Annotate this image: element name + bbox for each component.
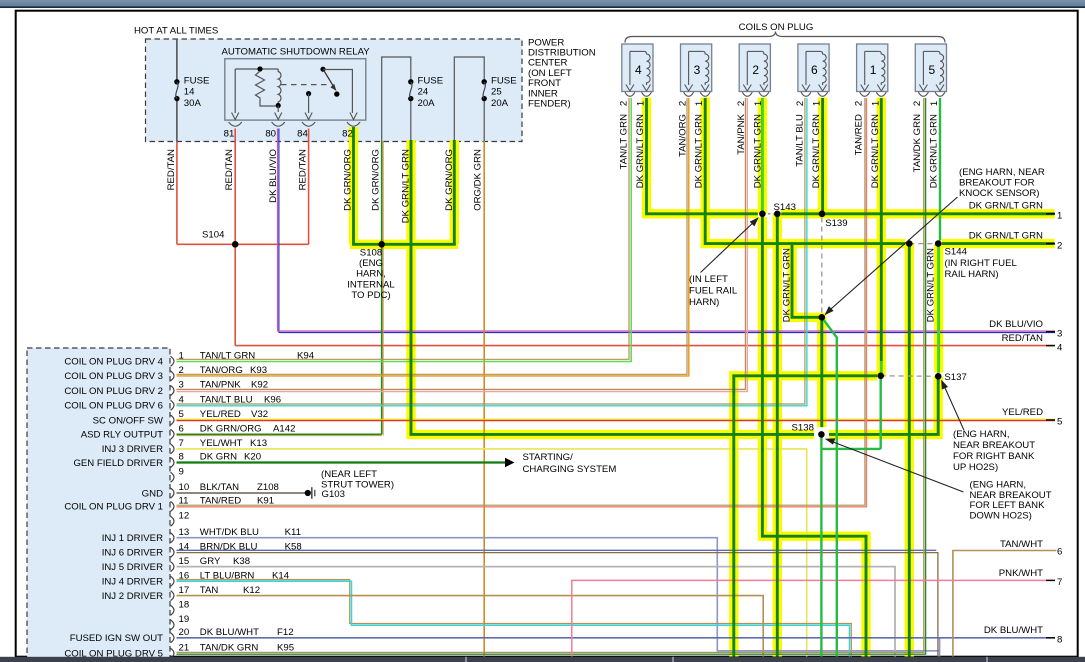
svg-text:KNOCK SENSOR): KNOCK SENSOR) (959, 188, 1040, 199)
svg-text:2: 2 (619, 101, 630, 106)
PCM pin 9 socket arc (171, 472, 175, 482)
arrow starting/charging (505, 458, 515, 468)
wire pin80 DK BLU/VIO (277, 129, 279, 332)
svg-text:K93: K93 (250, 365, 267, 376)
wire fuse14 inside PDC (black) (176, 40, 178, 142)
svg-text:6: 6 (1057, 547, 1062, 558)
ignition coil 6 (798, 44, 829, 92)
leader to S143 (in left fuel rail harn) (701, 220, 757, 273)
dashed S143 link (762, 213, 777, 215)
PCM pin 18 socket arc (171, 605, 175, 615)
svg-text:(ENG HARN,: (ENG HARN, (953, 429, 1010, 440)
wire row8 DK GRN to starting system (177, 461, 506, 463)
svg-text:NEAR BREAKOUT: NEAR BREAKOUT (970, 490, 1052, 501)
svg-text:ORG/DK GRN: ORG/DK GRN (473, 149, 484, 211)
wire row20 DK BLU/WHT line8 (177, 637, 1056, 639)
relay dashed actuator link (281, 84, 329, 86)
svg-text:2: 2 (736, 101, 747, 106)
svg-text:14: 14 (184, 87, 195, 98)
splice S108 (378, 241, 385, 248)
PCM pin 6 socket arc (171, 429, 175, 439)
PCM pin 12 socket arc (171, 516, 175, 526)
wire 909 vertical (908, 246, 911, 657)
relay pin84 stub (306, 91, 311, 96)
ignition coil 3 (681, 44, 712, 92)
svg-text:21: 21 (179, 642, 190, 653)
PCM connector box (27, 348, 170, 659)
svg-text:20: 20 (179, 627, 190, 638)
svg-text:DK BLU/VIO: DK BLU/VIO (268, 149, 279, 203)
splice S143 dots (759, 211, 766, 218)
PCM pin 21 socket arc (171, 648, 175, 658)
svg-text:TAN/DK GRN: TAN/DK GRN (200, 642, 259, 653)
svg-text:S143: S143 (774, 202, 796, 213)
svg-text:24: 24 (418, 87, 429, 98)
wire fuse24 left leg DK GRN/ORG thin (382, 141, 384, 436)
svg-text:TAN/PNK: TAN/PNK (736, 113, 747, 154)
wire fuse25 right leg ORG/DK GRN (483, 141, 485, 657)
wire row17 TAN (177, 596, 764, 657)
PCM pin 10 socket arc (171, 488, 175, 498)
PCM pin 17 socket arc (171, 591, 175, 601)
svg-text:18: 18 (179, 600, 190, 611)
svg-text:5: 5 (928, 63, 935, 77)
svg-text:82: 82 (342, 129, 353, 140)
svg-text:K96: K96 (264, 394, 281, 405)
PCM pin 5 socket arc (171, 415, 175, 425)
wire line4 RED/TAN horizontal (235, 345, 1055, 347)
svg-text:1: 1 (1057, 211, 1062, 222)
wire row6 DK GRN/ORG horizontal (177, 435, 382, 437)
PCM pin 13 socket arc (171, 533, 175, 543)
dashed S139 to knock splice (821, 218, 823, 314)
svg-text:11: 11 (179, 496, 189, 507)
svg-text:GEN FIELD DRIVER: GEN FIELD DRIVER (73, 458, 163, 469)
wire coil6 pin1 (821, 98, 824, 214)
relay switch (320, 67, 325, 72)
svg-text:ASD RLY OUTPUT: ASD RLY OUTPUT (81, 430, 163, 441)
coils on plug bracket (625, 32, 945, 43)
svg-text:1: 1 (179, 350, 184, 361)
wire S104 horizontal (177, 243, 309, 245)
svg-text:COIL ON PLUG DRV 2: COIL ON PLUG DRV 2 (64, 386, 163, 397)
wire fuse14 RED/TAN vertical (176, 142, 178, 245)
svg-text:13: 13 (179, 527, 190, 538)
svg-text:V32: V32 (251, 409, 268, 420)
svg-text:FOR LEFT BANK: FOR LEFT BANK (970, 500, 1046, 511)
wire row2 TAN/ORG pair (177, 98, 688, 374)
relay coil bumps (278, 69, 281, 103)
svg-text:Z108: Z108 (257, 482, 279, 493)
svg-text:19: 19 (179, 614, 190, 625)
svg-text:DK GRN/ORG: DK GRN/ORG (444, 149, 455, 211)
svg-text:INJ 5 DRIVER: INJ 5 DRIVER (102, 562, 163, 573)
power distribution center box (146, 39, 523, 142)
svg-text:S139: S139 (825, 218, 847, 229)
svg-text:1: 1 (636, 101, 647, 106)
wire coil1 pin1 (880, 98, 883, 361)
svg-text:LT BLU/BRN: LT BLU/BRN (200, 570, 255, 581)
splice knock breakout (819, 314, 826, 321)
svg-text:25: 25 (491, 87, 502, 98)
ignition coil 4 (622, 44, 653, 92)
dashed splice to S137 link (881, 375, 939, 378)
svg-text:2: 2 (1057, 240, 1062, 251)
svg-text:K12: K12 (243, 585, 260, 596)
bottom status bar (0, 657, 1085, 662)
svg-text:K91: K91 (257, 496, 274, 507)
svg-text:NEAR BREAKOUT: NEAR BREAKOUT (953, 440, 1035, 451)
svg-text:TAN/RED: TAN/RED (853, 114, 864, 155)
svg-text:14: 14 (179, 542, 190, 553)
svg-text:TAN/RED: TAN/RED (200, 496, 241, 507)
ground G103 (305, 490, 311, 496)
svg-text:K11: K11 (285, 527, 301, 538)
wire coil5 pin1 bright thin (939, 98, 941, 241)
wire knock bright green branch (822, 317, 837, 656)
svg-text:GRY: GRY (200, 556, 221, 567)
svg-text:WHT/DK BLU: WHT/DK BLU (200, 527, 259, 538)
ignition coil 5 (915, 44, 946, 92)
svg-text:S108: S108 (360, 248, 382, 259)
PCM pin 8 socket arc (171, 458, 175, 468)
wire S108 bus (352, 243, 456, 246)
svg-text:DK GRN/LT GRN: DK GRN/LT GRN (929, 114, 940, 188)
svg-text:3: 3 (694, 63, 701, 77)
fuse 25 (481, 84, 488, 97)
svg-text:COIL ON PLUG DRV 6: COIL ON PLUG DRV 6 (64, 401, 163, 412)
svg-text:HOT AT ALL TIMES: HOT AT ALL TIMES (134, 26, 218, 37)
wire 375 bus and 733 vertical (734, 376, 877, 657)
PCM pin 19 socket arc (171, 620, 175, 630)
relay pin connector arcs (229, 122, 242, 126)
svg-text:1: 1 (929, 101, 940, 106)
svg-text:TAN: TAN (200, 585, 219, 596)
svg-text:FUSE: FUSE (184, 75, 210, 86)
svg-text:2: 2 (912, 101, 923, 106)
PCM pin 1 socket arc (171, 356, 175, 366)
svg-text:(NEAR LEFT: (NEAR LEFT (321, 469, 377, 480)
svg-text:PNK/WHT: PNK/WHT (999, 568, 1043, 579)
svg-text:TAN/LT GRN: TAN/LT GRN (619, 114, 630, 170)
wire S138 green branch (821, 379, 880, 657)
splice S137 (935, 373, 942, 380)
wire row15 GRY (177, 567, 896, 657)
splice S104 (232, 241, 239, 248)
ignition coil 2 (739, 44, 770, 92)
svg-text:16: 16 (179, 570, 190, 581)
svg-text:4: 4 (635, 63, 642, 77)
wire row21 TAN/DK GRN pair (177, 98, 924, 652)
PCM pin 11 socket arc (171, 501, 175, 511)
svg-text:TAN/LT GRN: TAN/LT GRN (200, 350, 256, 361)
PCM pin 14 socket arc (171, 547, 175, 557)
svg-text:RED/TAN: RED/TAN (298, 149, 309, 190)
wire knock L to line2 (792, 244, 822, 428)
svg-text:(IN RIGHT FUEL: (IN RIGHT FUEL (945, 258, 1018, 269)
svg-text:DK GRN/LT GRN: DK GRN/LT GRN (811, 114, 822, 188)
wire row16 LT BLU/BRN pair (177, 580, 852, 657)
splice near S137 (877, 373, 884, 380)
svg-text:1: 1 (812, 101, 823, 106)
svg-text:RAIL HARN): RAIL HARN) (945, 269, 999, 280)
svg-text:A142: A142 (273, 424, 295, 435)
svg-text:30A: 30A (184, 98, 202, 109)
svg-text:DK GRN/LT GRN: DK GRN/LT GRN (870, 114, 881, 188)
svg-text:(ENG HARN,: (ENG HARN, (970, 480, 1027, 491)
svg-text:INJ 2 DRIVER: INJ 2 DRIVER (102, 591, 163, 602)
svg-text:DK BLU/WHT: DK BLU/WHT (200, 627, 259, 638)
svg-text:DK GRN/LT GRN: DK GRN/LT GRN (694, 114, 705, 188)
wire line3 DK BLU/VIO horizontal (278, 330, 1056, 332)
svg-text:2: 2 (677, 101, 688, 106)
relay box (225, 59, 366, 120)
svg-text:4: 4 (179, 394, 185, 405)
svg-text:TO PDC): TO PDC) (351, 290, 390, 301)
svg-text:K95: K95 (277, 642, 294, 653)
svg-text:80: 80 (265, 129, 276, 140)
svg-text:UP HO2S): UP HO2S) (953, 462, 998, 473)
svg-text:FUSED IGN SW OUT: FUSED IGN SW OUT (70, 633, 163, 644)
svg-text:TAN/LT BLU: TAN/LT BLU (795, 114, 806, 167)
wire line1 right (781, 212, 1054, 215)
wire coil4 pin1 + line1 left (647, 98, 758, 214)
svg-text:COIL ON PLUG DRV 3: COIL ON PLUG DRV 3 (64, 371, 163, 382)
svg-text:1: 1 (694, 101, 705, 106)
svg-text:RED/TAN: RED/TAN (166, 149, 177, 190)
wire row5 YEL/RED line5 (177, 418, 1056, 420)
svg-text:DK GRN/LT GRN: DK GRN/LT GRN (635, 114, 646, 188)
svg-text:G103: G103 (322, 489, 345, 500)
svg-text:DOWN HO2S): DOWN HO2S) (970, 511, 1032, 522)
wire row14 BRN/DK BLU (177, 549, 937, 551)
wire line6 TAN/WHT (953, 551, 1057, 657)
svg-text:K58: K58 (285, 542, 302, 553)
wire coil2 pin1 bright (761, 98, 764, 214)
leader S138 left bank (828, 440, 964, 492)
svg-text:YEL/WHT: YEL/WHT (200, 438, 243, 449)
svg-text:(IN LEFT: (IN LEFT (689, 274, 728, 285)
svg-text:2: 2 (795, 101, 806, 106)
svg-text:3: 3 (179, 380, 184, 391)
svg-text:3: 3 (1057, 329, 1062, 340)
svg-text:(ENG: (ENG (359, 258, 383, 269)
splice S139 (819, 211, 826, 218)
svg-text:2: 2 (752, 63, 759, 77)
wire line7 PNK/WHT (572, 580, 1055, 656)
svg-text:9: 9 (179, 466, 184, 477)
svg-text:FUSE: FUSE (418, 75, 444, 86)
svg-text:6: 6 (811, 63, 818, 77)
svg-text:STARTING/: STARTING/ (523, 452, 574, 463)
svg-text:COILS ON PLUG: COILS ON PLUG (739, 22, 814, 33)
wire row1 TAN/LT GRN pair (177, 98, 630, 359)
wire row13 WHT/DK BLU (177, 538, 940, 651)
fuse 14 (174, 84, 181, 97)
PCM pin 7 socket arc (171, 444, 175, 454)
wire row3 TAN/PNK pair (177, 98, 746, 389)
svg-text:BREAKOUT FOR: BREAKOUT FOR (959, 177, 1035, 188)
svg-text:HARN): HARN) (689, 297, 719, 308)
svg-text:K92: K92 (251, 380, 268, 391)
svg-text:RED/TAN: RED/TAN (224, 149, 235, 190)
fuse25 loop inside box (454, 57, 484, 141)
wire line2 right (942, 242, 1055, 245)
svg-text:COIL ON PLUG DRV 4: COIL ON PLUG DRV 4 (64, 357, 163, 368)
svg-text:INJ 3 DRIVER: INJ 3 DRIVER (102, 444, 163, 455)
svg-text:TAN/PNK: TAN/PNK (200, 380, 241, 391)
PCM pin 4 socket arc (171, 400, 175, 410)
svg-text:DK GRN/ORG: DK GRN/ORG (371, 149, 382, 211)
fuse 24 (408, 84, 415, 97)
svg-text:CHARGING SYSTEM: CHARGING SYSTEM (523, 464, 617, 475)
svg-text:SC ON/OFF SW: SC ON/OFF SW (93, 415, 164, 426)
relay top wire (235, 68, 278, 70)
svg-text:DK GRN/LT GRN: DK GRN/LT GRN (401, 149, 412, 223)
svg-text:YEL/RED: YEL/RED (1002, 407, 1043, 418)
svg-text:TAN/LT BLU: TAN/LT BLU (200, 394, 253, 405)
fuse24 loop inside box (382, 57, 411, 141)
svg-text:COIL ON PLUG DRV 1: COIL ON PLUG DRV 1 (64, 502, 163, 513)
svg-text:DK GRN/LT GRN: DK GRN/LT GRN (969, 231, 1043, 242)
wire pin84 RED/TAN vertical (308, 129, 310, 245)
svg-text:DK BLU/VIO: DK BLU/VIO (989, 319, 1043, 330)
svg-text:S137: S137 (944, 372, 966, 383)
ignition coil 1 (857, 44, 888, 92)
wire row10 BLK/TAN (177, 492, 306, 494)
dashed S144 link (909, 243, 938, 245)
svg-text:DK GRN/LT GRN: DK GRN/LT GRN (969, 201, 1043, 212)
svg-text:S144: S144 (945, 247, 968, 258)
svg-text:TAN/DK GRN: TAN/DK GRN (912, 114, 923, 173)
wire row4 TAN/LT BLU pair (177, 98, 805, 404)
wire fuse25 left leg (453, 140, 456, 245)
svg-text:10: 10 (179, 482, 190, 493)
PCM pin 2 socket arc (171, 371, 175, 381)
svg-text:8: 8 (1057, 635, 1062, 646)
svg-text:TAN/WHT: TAN/WHT (1000, 539, 1043, 550)
leader S137 right bank (944, 385, 964, 430)
svg-text:DK GRN/ORG: DK GRN/ORG (343, 149, 354, 211)
wire below S143 777 vertical (776, 214, 779, 657)
relay resistance zigzag (256, 71, 276, 106)
splice S144 dots (906, 240, 913, 247)
svg-text:K20: K20 (244, 452, 261, 463)
svg-text:INTERNAL: INTERNAL (347, 279, 395, 290)
svg-text:DK GRN/LT GRN: DK GRN/LT GRN (782, 248, 793, 322)
svg-text:7: 7 (1057, 577, 1062, 588)
svg-text:S104: S104 (202, 229, 225, 240)
svg-text:15: 15 (179, 556, 190, 567)
svg-text:1: 1 (870, 63, 877, 77)
svg-text:FUEL RAIL: FUEL RAIL (689, 286, 738, 297)
svg-text:BRN/DK BLU: BRN/DK BLU (200, 542, 258, 553)
svg-text:TAN/ORG: TAN/ORG (677, 114, 688, 157)
relay internal left leg (234, 69, 236, 113)
svg-text:7: 7 (179, 438, 184, 449)
wire S138 bus right (829, 378, 938, 435)
svg-text:(ENG HARN, NEAR: (ENG HARN, NEAR (959, 167, 1045, 178)
svg-text:K14: K14 (272, 570, 290, 581)
svg-text:BLK/TAN: BLK/TAN (200, 482, 239, 493)
svg-text:2: 2 (179, 365, 184, 376)
svg-text:TAN/ORG: TAN/ORG (200, 365, 243, 376)
svg-text:6: 6 (179, 424, 184, 435)
svg-text:DK GRN/LT GRN: DK GRN/LT GRN (752, 114, 763, 188)
highlight bands (349, 127, 358, 244)
leader knock sensor (828, 197, 958, 312)
svg-text:FOR RIGHT BANK: FOR RIGHT BANK (953, 451, 1035, 462)
wire relay pin82 DK GRN/ORG (352, 127, 355, 244)
wire row11 TAN/RED (177, 98, 865, 505)
svg-text:INJ 4 DRIVER: INJ 4 DRIVER (102, 577, 163, 588)
svg-text:DK BLU/WHT: DK BLU/WHT (984, 625, 1043, 636)
svg-text:DK GRN: DK GRN (200, 452, 237, 463)
svg-text:17: 17 (179, 585, 190, 596)
svg-text:DK GRN/ORG: DK GRN/ORG (200, 424, 262, 435)
svg-text:HARN,: HARN, (356, 269, 386, 280)
svg-text:K38: K38 (233, 556, 250, 567)
svg-text:YEL/RED: YEL/RED (200, 409, 241, 420)
splice S138 (818, 431, 825, 438)
svg-text:4: 4 (1057, 342, 1063, 353)
svg-text:12: 12 (179, 510, 190, 521)
PCM pin 20 socket arc (171, 633, 175, 643)
svg-text:5: 5 (179, 409, 184, 420)
svg-text:K13: K13 (250, 438, 267, 449)
svg-text:F12: F12 (277, 627, 294, 638)
svg-text:DK GRN/LT GRN: DK GRN/LT GRN (926, 248, 937, 322)
svg-text:1: 1 (753, 101, 764, 106)
svg-text:GND: GND (142, 488, 163, 499)
svg-text:S138: S138 (792, 423, 814, 434)
wire jog S143 down to 866 (762, 217, 866, 657)
svg-text:AUTOMATIC SHUTDOWN RELAY: AUTOMATIC SHUTDOWN RELAY (222, 47, 371, 58)
PCM pin 15 socket arc (171, 562, 175, 572)
svg-text:8: 8 (179, 452, 184, 463)
wire row7 YEL/WHT (177, 449, 807, 657)
svg-text:FUSE: FUSE (491, 75, 517, 86)
wire fuse24 DK GRN/LT GRN main vertical and S138 bus (411, 140, 814, 434)
svg-text:2: 2 (854, 101, 865, 106)
PCM pin 3 socket arc (171, 386, 175, 396)
wire pin81 RED/TAN vertical (234, 129, 236, 346)
svg-text:20A: 20A (418, 98, 436, 109)
wire coil3 pin1 + line2 (705, 98, 905, 244)
svg-text:RED/TAN: RED/TAN (1002, 333, 1043, 344)
svg-text:INJ 1 DRIVER: INJ 1 DRIVER (102, 533, 163, 544)
PCM pin 16 socket arc (171, 576, 175, 586)
svg-text:84: 84 (297, 129, 308, 140)
svg-text:FENDER): FENDER) (528, 99, 571, 110)
wire S144 to S137 bright (937, 244, 940, 373)
svg-text:81: 81 (224, 129, 235, 140)
svg-text:20A: 20A (491, 98, 509, 109)
svg-text:INJ 6 DRIVER: INJ 6 DRIVER (102, 548, 163, 559)
svg-text:K94: K94 (297, 350, 315, 361)
svg-text:5: 5 (1057, 417, 1062, 428)
svg-text:1: 1 (870, 101, 881, 106)
